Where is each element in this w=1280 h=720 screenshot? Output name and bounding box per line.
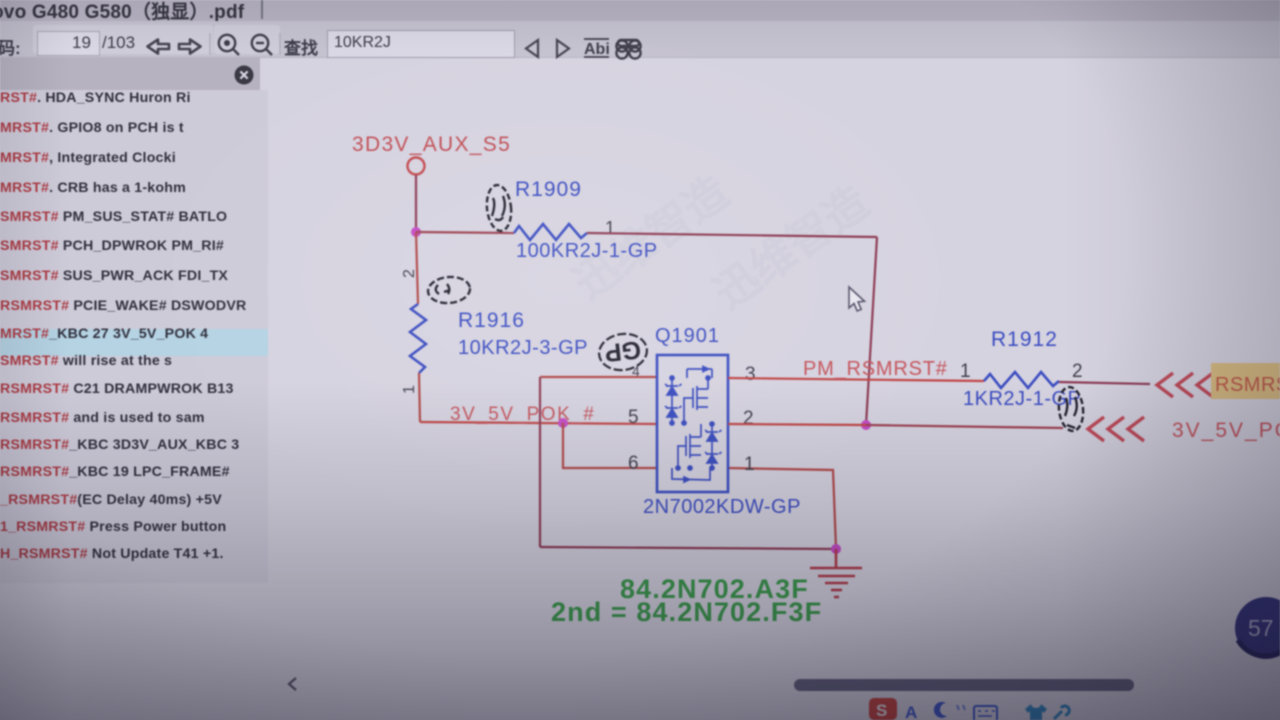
R1916 pin 1 label [401, 385, 418, 394]
svg-text:A: A [905, 703, 917, 720]
sogou input icon S [869, 698, 897, 720]
Q1901 pin 4 [632, 363, 640, 379]
svg-text:1: 1 [960, 361, 971, 382]
junction node B [558, 418, 568, 428]
wire pin4 to left rail [540, 376, 657, 378]
svg-text:R1916: R1916 [458, 309, 525, 332]
resistor R1912 [984, 372, 1059, 388]
Q1901 value 2N7002KDW-GP [643, 496, 801, 518]
stamp annotation GP [597, 331, 650, 373]
wire junction to R1909 [416, 232, 514, 233]
svg-text:RSMRS: RSMRS [1215, 374, 1280, 396]
svg-text:PM_RSMRST#: PM_RSMRST# [803, 358, 948, 380]
wire right vertical down [866, 237, 877, 425]
page indicator bubble 57 [1235, 597, 1280, 659]
panel [0, 57, 260, 90]
ground [810, 549, 862, 597]
resistor R1909 [514, 224, 587, 240]
wire Q1901 pin2 to junction C [728, 424, 866, 425]
net label 3V_5V_POK [1172, 419, 1280, 442]
wire Q1901 pin3 to PM_RSMRST# [728, 378, 984, 381]
R1909 value 100KR2J-1-GP [516, 240, 658, 262]
left ground rail vertical [539, 377, 541, 547]
svg-text:S: S [876, 701, 887, 720]
svg-text:3D3V_AUX_S5: 3D3V_AUX_S5 [352, 133, 511, 156]
input toolbar shirt [1025, 704, 1047, 720]
R1912 pin 1 [960, 361, 971, 382]
svg-text:1: 1 [605, 218, 615, 238]
svg-text:2nd = 84.2N702.F3F: 2nd = 84.2N702.F3F [551, 597, 822, 627]
svg-text:100KR2J-1-GP: 100KR2J-1-GP [516, 240, 658, 262]
svg-text:3V_5V_POK_#: 3V_5V_POK_# [450, 404, 595, 425]
svg-text:6: 6 [628, 453, 639, 474]
input toolbar moon [934, 702, 947, 718]
wire branch to pin 6 [563, 423, 657, 468]
svg-text:GP: GP [603, 335, 642, 367]
horizontal scrollbar [794, 679, 1134, 691]
wire pin1 to ground [728, 468, 836, 548]
input toolbar marks [957, 705, 965, 710]
svg-text:R1912: R1912 [991, 328, 1058, 351]
net label 3V_5V_POK_# [450, 404, 595, 425]
port chevrons RSMRST [1157, 373, 1213, 397]
svg-text:Q1901: Q1901 [655, 325, 720, 347]
Q1901 designator [655, 325, 720, 347]
port chevrons 3V_5V_POK [1088, 417, 1144, 441]
resistor R1916 [410, 304, 426, 373]
toolbar icons svg [0, 0, 700, 60]
wire junction C to port [866, 425, 1063, 428]
annotation 2nd = 84.2N702.F3F [551, 597, 822, 627]
junction node A [411, 227, 421, 237]
search highlight RSMRS [1211, 363, 1280, 399]
svg-text:1: 1 [744, 454, 755, 475]
input toolbar A [905, 703, 917, 720]
Q1901 internal mosfet 1 [665, 367, 712, 426]
R1909 pin 1 [605, 218, 615, 238]
Q1901 pin 1 [744, 454, 755, 475]
Q1901 internal mosfet 2 [672, 422, 722, 482]
R1912 pin 2 [1072, 361, 1083, 382]
svg-text:1: 1 [401, 385, 418, 394]
Q1901 pin 3 [745, 364, 756, 385]
wire 3V_5V_POK_# net [420, 422, 657, 424]
wire R1912 to port [1059, 382, 1150, 384]
stamp annotation near R1909 [485, 184, 514, 232]
stamp annotation near R1916 [427, 275, 471, 305]
wire from terminal to junction [415, 175, 417, 228]
svg-text:3: 3 [745, 364, 756, 385]
input toolbar keyboard [974, 706, 997, 720]
svg-text:2: 2 [401, 269, 418, 278]
R1912 value 1KR2J-1-GP [963, 388, 1081, 410]
wire R1916 to corner [419, 373, 420, 422]
svg-text:57: 57 [1248, 615, 1274, 641]
svg-text:2: 2 [743, 408, 754, 429]
R1909 designator [515, 178, 582, 201]
node 3D3V_AUX_S5 label [352, 133, 511, 156]
svg-text:5: 5 [628, 407, 639, 428]
svg-text:3V_5V_POK: 3V_5V_POK [1172, 419, 1280, 442]
toolbar [0, 21, 1280, 58]
bottom ground rail [540, 547, 836, 549]
panel collapse arrow [289, 678, 296, 690]
junction node D [831, 544, 841, 554]
mouse cursor [849, 287, 865, 311]
svg-text:R1909: R1909 [515, 178, 582, 201]
R1912 designator [991, 328, 1058, 351]
Q1901 pin 5 [628, 407, 639, 428]
watermark [566, 168, 878, 319]
R1916 designator [458, 309, 525, 332]
wire junction to R1916 [416, 232, 418, 304]
junction node C [861, 420, 871, 430]
tab bar [0, 0, 1280, 21]
transistor Q1901 [657, 355, 728, 492]
annotation 84.2N702.A3F [620, 574, 809, 604]
svg-text:2: 2 [1072, 361, 1083, 382]
input toolbar wrench [1054, 706, 1069, 719]
R1916 value 10KR2J-3-GP [458, 337, 588, 359]
stamp annotation near port [1057, 386, 1085, 432]
power terminal circle [408, 158, 425, 175]
R1916 pin 2 label [401, 269, 418, 278]
Q1901 pin 6 [628, 453, 639, 474]
svg-text:10KR2J-3-GP: 10KR2J-3-GP [458, 337, 588, 359]
Q1901 pin 2 [743, 408, 754, 429]
wire R1909 to right corner [587, 233, 877, 237]
svg-text:2N7002KDW-GP: 2N7002KDW-GP [643, 496, 801, 518]
net label PM_RSMRST# [803, 358, 948, 380]
